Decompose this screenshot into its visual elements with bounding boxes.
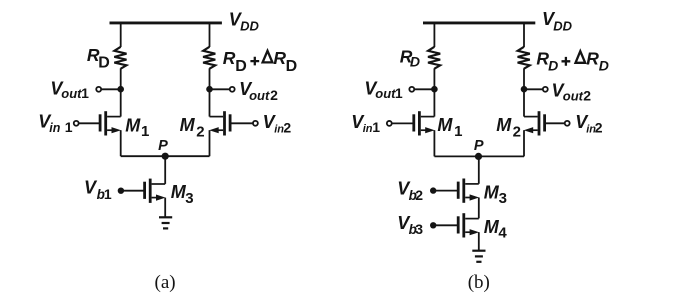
svg-text:in: in [49,121,60,135]
svg-text:2: 2 [595,120,603,136]
label Vout1 (b) [364,78,403,101]
VDD rail (b) [423,21,535,24]
label Vin2 (a) [263,112,292,136]
resistor RD (a) [114,47,126,69]
svg-text:R: R [223,48,236,68]
label RD (a) [87,45,110,71]
wire Vout2 terminal (a) [210,88,230,90]
transistor M2 (a) [209,111,230,135]
svg-text:D: D [286,58,298,75]
resistor RD+dRD (a) [203,47,215,69]
svg-text:2: 2 [513,124,521,141]
label RD+dRD (a) [223,48,297,75]
svg-text:1: 1 [65,119,73,135]
label Vout2 (a) [239,79,278,103]
terminal Vb2 dot (b) [430,187,436,193]
wire rail to resistor RD+dRD (a) [209,24,211,47]
terminal Vin2 (b) [565,121,570,126]
wire M3 source to M4 drain (b) [478,198,480,219]
svg-text:out: out [249,88,270,103]
wire Vin2 gate lead (a) [231,122,253,124]
svg-text:out: out [563,88,584,103]
node Vout1 junction (b) [431,86,438,93]
wire resistor to M1 drain (b) [433,68,435,116]
svg-text:4: 4 [498,225,507,242]
transistor M1 (b) [414,111,435,135]
svg-text:1: 1 [372,119,380,135]
label RD+dRD (b) [536,48,608,73]
node Vout2 junction (b) [521,86,528,93]
wire M3 source to ground (a) [164,198,166,217]
wire Vb3 gate lead (b) [433,224,457,226]
label M3 (b) [484,182,507,207]
terminal Vout2 (a) [230,87,235,92]
label M3 (a) [171,182,194,207]
wire resistor to M2 drain (b) [523,68,525,116]
wire Vin1 gate lead (a) [79,122,100,124]
terminal Vin1 (b) [387,121,392,126]
wire Vin1 gate lead (b) [392,122,413,124]
label M1 (b) [437,115,462,140]
label VDD (a) [229,9,260,33]
svg-text:(b): (b) [468,272,490,293]
svg-text:D: D [410,53,420,69]
svg-text:D: D [98,54,110,71]
wire P to M3 drain (b) [478,156,480,183]
svg-text:P: P [158,138,168,154]
svg-text:M: M [180,115,196,135]
node Vout1 junction (a) [117,86,124,93]
label Vout1 (a) [50,78,89,101]
transistor M3 (a) [145,179,166,203]
label Vb1 (a) [84,177,112,202]
wire rail to resistor RD (a) [120,24,122,47]
terminal Vout2 (b) [543,87,548,92]
label Vin1 (b) [351,112,380,135]
label Vin2 (b) [575,112,603,136]
svg-text:1: 1 [104,186,112,202]
transistor M2 (b) [524,111,545,135]
transistor M3 (b) [458,179,479,203]
label M2 (b) [496,115,521,141]
wire resistor to M1 drain (a) [120,68,122,116]
label VDD (b) [542,9,573,34]
svg-text:D: D [548,57,558,73]
svg-text:DD: DD [553,19,572,34]
svg-text:M: M [496,115,512,135]
label M2 (a) [180,115,205,141]
svg-text:3: 3 [499,190,507,207]
svg-text:M: M [125,115,141,135]
svg-text:R: R [273,48,286,68]
svg-text:2: 2 [270,87,278,103]
wire rail to resistor RD (b) [433,24,435,47]
label Vin1 (a) [38,112,72,135]
svg-text:2: 2 [196,124,204,141]
wire M2 source to bus (a) [209,130,211,156]
label M1 (a) [125,115,149,140]
svg-text:2: 2 [415,187,423,203]
svg-text:M: M [484,217,500,237]
terminal Vin1 (a) [74,121,79,126]
label Vb2 (b) [397,179,423,203]
terminal Vb3 dot (b) [430,222,436,228]
svg-text:2: 2 [583,87,591,103]
wire M1 source to bus (a) [120,130,122,156]
svg-text:out: out [61,86,82,101]
transistor M4 (b) [458,213,479,237]
svg-text:(a): (a) [155,272,176,293]
transistor M1 (a) [100,111,121,135]
wire M4 source to ground (b) [478,232,480,250]
wire Vout1 terminal (b) [414,88,434,90]
svg-text:1: 1 [395,85,403,101]
svg-text:1: 1 [141,123,149,140]
svg-text:1: 1 [81,85,89,101]
wire M1 source to bus (b) [433,130,435,156]
label Vb3 (b) [397,213,423,237]
svg-text:1: 1 [454,123,462,140]
svg-text:P: P [474,138,484,154]
wire P to M3 drain (a) [164,156,166,184]
svg-text:D: D [599,57,609,73]
terminal Vout1 (a) [96,87,101,92]
svg-text:3: 3 [185,190,193,207]
ground (a) [159,217,172,228]
terminal Vb1 dot (a) [118,188,124,194]
wire Vb2 gate lead (b) [433,190,457,192]
wire resistor to M2 drain (a) [209,68,211,116]
wire Vout1 terminal (a) [101,88,120,90]
wire M2 source to bus (b) [523,130,525,156]
node P junction (a) [162,153,169,160]
label M4 (b) [484,217,508,242]
svg-text:M: M [437,115,453,135]
node P junction (b) [475,153,482,160]
resistor RD+dRD (b) [518,47,530,69]
terminal Vout1 (b) [409,87,414,92]
wire source bus (a) [121,155,210,157]
wire source bus (b) [434,155,524,157]
wire rail to resistor RD+dRD (b) [523,24,525,47]
resistor RD (b) [428,47,440,69]
svg-text:2: 2 [283,120,291,136]
VDD rail (a) [110,21,222,24]
node Vout2 junction (a) [206,86,213,93]
wire Vb1 gate lead (a) [121,190,144,192]
svg-text:R: R [586,48,599,68]
label RD (b) [400,47,420,70]
svg-text:M: M [484,182,500,202]
label Vout2 (b) [552,81,592,104]
ground (b) [472,251,485,262]
svg-text:DD: DD [240,19,259,34]
wire Vin2 gate lead (b) [545,122,564,124]
svg-text:D: D [235,58,247,75]
svg-text:3: 3 [415,221,423,237]
wire Vout2 terminal (b) [524,88,543,90]
svg-text:out: out [375,86,396,101]
terminal Vin2 (a) [253,121,258,126]
